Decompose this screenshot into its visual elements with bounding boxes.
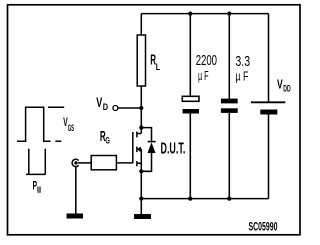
resistor R_L [137,35,145,86]
svg-text:V: V [96,95,102,110]
node C2 bottom junction [227,197,231,201]
svg-text:2200: 2200 [196,52,217,69]
wire source to bottom rail [140,171,142,198]
pulse generator terminal [72,159,79,166]
wire ground stub under source [140,199,142,214]
wire R_G to gate [116,162,132,164]
svg-text:3.3: 3.3 [235,53,250,70]
ground under generator [67,214,84,219]
node source junction [139,169,143,173]
transistor Q1 D.U.T. MOSFET [133,128,142,172]
svg-text:W: W [37,185,41,195]
battery V_DD [251,101,285,103]
svg-text:D.U.T.: D.U.T. [161,140,186,157]
node C1 bottom junction [188,197,192,201]
wire bottom rail [141,198,268,200]
wire V_D junction to drain [140,108,142,128]
node C1 top junction [188,12,192,16]
svg-text:SC05990: SC05990 [249,222,278,234]
wire R_L top lead [140,14,142,35]
wire generator to R_G [78,162,91,164]
V_GS pulse waveform [17,107,64,141]
node bottom rail left junction [139,197,143,201]
wire C1 bottom lead [189,114,191,199]
ground under D.U.T. source [134,214,151,219]
wire V_D terminal lead [118,107,141,109]
svg-text:L: L [156,62,161,72]
svg-text:µ F: µ F [198,69,209,83]
svg-text:D: D [103,102,109,112]
wire battery bottom lead [268,115,270,199]
resistor R_G [91,156,116,170]
node V_D junction [139,106,143,110]
svg-text:µ F: µ F [235,70,248,84]
node drain junction [139,126,143,130]
node C2 top junction [227,12,231,16]
wire C1 top lead [189,14,191,97]
wire generator ground lead [75,167,77,214]
terminal V_D open circle [113,106,118,111]
svg-text:GS: GS [68,123,74,133]
wire battery top lead [268,14,270,102]
wire top supply rail [141,13,268,15]
body diode of D.U.T. [141,128,155,172]
svg-text:V: V [277,77,283,92]
wire C2 bottom lead [228,113,230,199]
wire R_L bottom lead [140,86,142,108]
wire C2 top lead [228,14,230,99]
P_W pulse lower [26,149,46,175]
capacitor C2 3.3uF [221,99,238,104]
capacitor C1 2200uF polarized [182,96,199,101]
svg-text:G: G [105,136,110,146]
svg-text:DD: DD [283,83,290,94]
